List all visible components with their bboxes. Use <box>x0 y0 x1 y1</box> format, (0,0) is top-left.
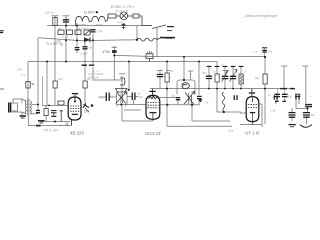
svg-text:Dr(2): Dr(2) <box>96 23 102 27</box>
svg-text:Dη: Dη <box>84 110 88 114</box>
svg-text:UCH 21: UCH 21 <box>145 131 161 136</box>
svg-text:G′: G′ <box>268 93 271 97</box>
svg-text:2×a′: 2×a′ <box>228 129 234 133</box>
svg-text:℅: ℅ <box>206 101 209 105</box>
svg-text:_Allstromempfänger’: _Allstromempfänger’ <box>242 14 278 18</box>
svg-text:4700: 4700 <box>103 50 111 54</box>
svg-text:Ω: Ω <box>244 70 246 74</box>
svg-text:5a: 5a <box>89 46 93 50</box>
svg-text:P-O 1 B: P-O 1 B <box>116 10 129 14</box>
svg-text:B 250 C 75 ≈: B 250 C 75 ≈ <box>111 4 135 9</box>
svg-text:2k: 2k <box>87 77 91 81</box>
svg-text:5k: 5k <box>170 69 174 73</box>
svg-text:500: 500 <box>138 95 143 99</box>
svg-text:0,1: 0,1 <box>21 73 26 77</box>
svg-text:Dr1B7: Dr1B7 <box>78 23 86 27</box>
svg-text:ℜθ: ℜθ <box>202 71 206 75</box>
svg-text:f %›: f %› <box>97 30 103 34</box>
svg-text:P4 6 J 87: P4 6 J 87 <box>44 128 58 132</box>
svg-text:48: 48 <box>65 122 69 126</box>
svg-text:Wkr: Wkr <box>17 68 22 72</box>
svg-text:3 + b · c: 3 + b · c <box>62 35 73 39</box>
svg-text:4B 220: 4B 220 <box>70 131 84 136</box>
svg-text:50 150 4μ: 50 150 4μ <box>77 26 90 30</box>
svg-text:a+b: a+b <box>118 20 123 24</box>
svg-text:250: 250 <box>56 40 62 44</box>
svg-text:(0): (0) <box>172 94 176 98</box>
svg-text:2,2μF: 2,2μF <box>80 52 88 56</box>
svg-text:·−□−·: ·−□−· <box>92 70 99 74</box>
svg-text:1k5: 1k5 <box>58 77 63 81</box>
svg-text:50: 50 <box>311 113 315 117</box>
svg-text:R⌀: R⌀ <box>269 49 273 53</box>
svg-text:1kΩ 4η: 1kΩ 4η <box>45 10 54 14</box>
svg-text:UY 1 N: UY 1 N <box>245 131 259 136</box>
svg-text:Rg: Rg <box>255 76 259 80</box>
svg-text:+: + <box>296 121 298 125</box>
svg-text:2 W: 2 W <box>270 109 276 113</box>
svg-text:a·b: a·b <box>254 49 258 53</box>
svg-text:+: + <box>310 94 312 98</box>
svg-text:U 907: U 907 <box>84 10 95 15</box>
svg-text:60: 60 <box>100 96 104 100</box>
svg-text:50μ: 50μ <box>287 94 292 98</box>
